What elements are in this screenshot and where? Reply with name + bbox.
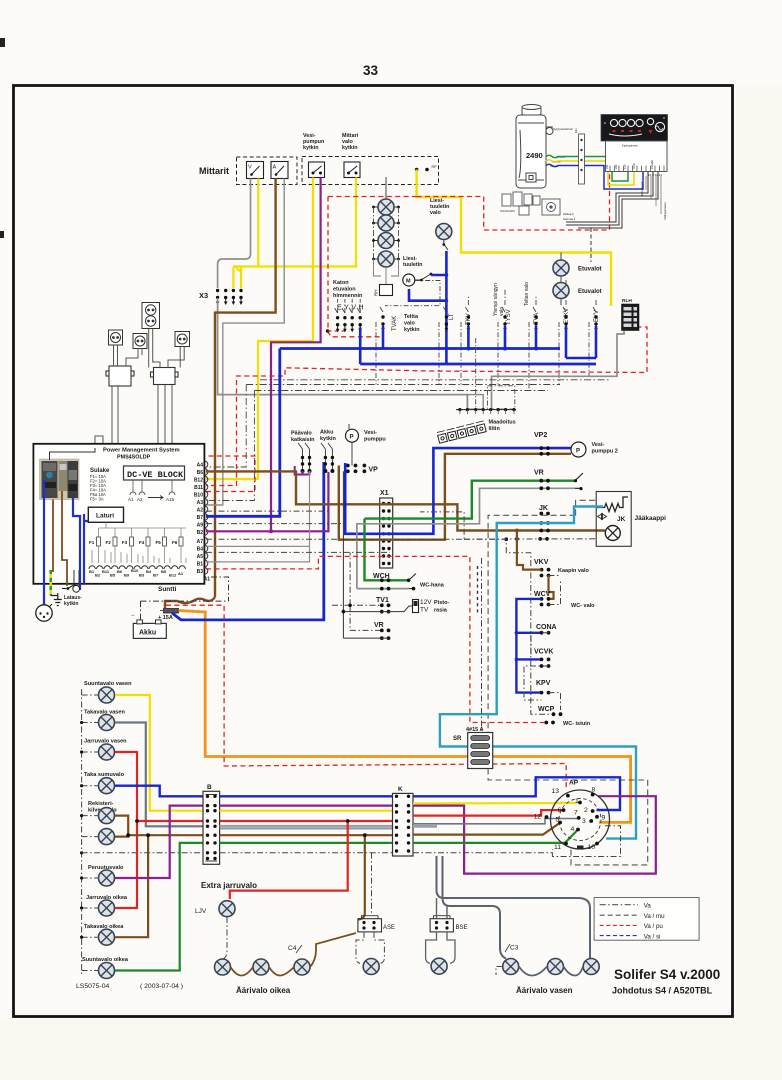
svg-text:TYSV: TYSV <box>506 309 512 325</box>
svg-text:A1: A1 <box>178 571 184 576</box>
wire grey from A meter right down to PMS <box>206 179 284 506</box>
svg-text:VKV: VKV <box>534 559 549 566</box>
svg-text:KPV: KPV <box>536 680 551 687</box>
grey dashed SR to AP loop <box>488 769 648 865</box>
wires fuses to bottom pins <box>92 546 186 563</box>
svg-text:B2: B2 <box>95 573 101 578</box>
grey feeds from K down to BSE and lamp chains <box>437 856 591 959</box>
svg-text:kytkin: kytkin <box>342 145 358 151</box>
svg-text:Teltta: Teltta <box>404 314 419 320</box>
brown to AP pin5 <box>413 823 560 835</box>
svg-text:A: A <box>273 165 277 171</box>
meter box V+A dashed enclosure <box>237 157 298 185</box>
Jaakaappi box <box>596 492 631 547</box>
right edge pin arcs <box>204 461 207 574</box>
black wires TV <box>343 471 413 638</box>
svg-text:Extra jarruvalo: Extra jarruvalo <box>201 881 257 890</box>
svg-text:B5: B5 <box>110 573 116 578</box>
svg-text:F3: F3 <box>122 540 128 545</box>
resistor <box>596 497 628 512</box>
svg-text:Kayttopaneeli: Kayttopaneeli <box>622 144 638 148</box>
lamp column rails <box>374 207 399 259</box>
blue VP to VP2 <box>345 448 571 534</box>
svg-text:B6: B6 <box>117 569 123 574</box>
small black verticals below panel right <box>646 176 661 214</box>
blue chain WCV-CONA-VCVK-KPV <box>516 599 541 693</box>
brown VKV zigzag <box>517 531 542 570</box>
switch S1 vesipumppu <box>309 162 325 178</box>
boiler squiggle wires green yellow blue <box>546 155 628 181</box>
svg-text:pumppu 2: pumppu 2 <box>592 449 618 455</box>
lamp liesituuletin valo <box>436 224 452 240</box>
svg-text:B12: B12 <box>169 573 177 578</box>
svg-text:2: 2 <box>584 807 588 814</box>
breaker photo block <box>40 459 80 500</box>
blue wire liesituuletin circuit <box>445 251 448 349</box>
svg-text:Sytytyselektrodi: Sytytyselektrodi <box>553 127 573 131</box>
red dashed RLH loop to PMS B11 <box>206 327 647 486</box>
svg-text:B12: B12 <box>194 478 203 484</box>
svg-text:A15: A15 <box>166 497 175 502</box>
12V pistorasia <box>413 600 419 613</box>
svg-text:B3: B3 <box>197 569 204 575</box>
BSE lamp loop <box>426 932 455 964</box>
blue to AP pin2 <box>413 777 620 810</box>
red dashed vertical left of lamp column <box>328 197 383 337</box>
svg-text:katkaisin: katkaisin <box>291 437 315 443</box>
svg-text:Äärivalo oikea: Äärivalo oikea <box>236 986 291 995</box>
svg-text:K: K <box>398 786 403 793</box>
svg-text:8: 8 <box>592 787 596 794</box>
svg-text:valo: valo <box>430 210 441 216</box>
dash-dot to fridge <box>464 538 596 540</box>
svg-text:B4: B4 <box>146 569 152 574</box>
dash-dot chain through lamps <box>373 177 399 259</box>
switch S2 mittarivalo <box>344 162 360 178</box>
grey takavalo vasen <box>115 723 203 827</box>
svg-text:JK: JK <box>539 505 548 512</box>
ASE lamp loop <box>356 932 384 964</box>
svg-text:A9: A9 <box>197 523 204 529</box>
green VR wire <box>365 481 576 519</box>
brown rekisterivalo chain <box>115 816 128 837</box>
svg-text:VP: VP <box>369 467 379 474</box>
bottom terminal arcs <box>89 566 185 569</box>
svg-text:Pisto-: Pisto- <box>434 600 449 606</box>
svg-text:B9: B9 <box>161 569 167 574</box>
meter V <box>247 162 264 179</box>
red branch to extra brake light <box>230 821 348 899</box>
svg-text:Mittarit: Mittarit <box>199 166 229 176</box>
red dashed battery to bottom <box>166 605 566 790</box>
svg-text:Va / pu: Va / pu <box>644 923 664 930</box>
svg-text:WC- valo: WC- valo <box>571 603 595 609</box>
red dashed PMS B10 stub <box>206 456 255 492</box>
svg-text:Taka sumuvalo: Taka sumuvalo <box>84 772 125 778</box>
wires lamp column to RH dimmer <box>374 259 399 284</box>
svg-text:Johdotus S4 / A520TBL: Johdotus S4 / A520TBL <box>612 986 713 996</box>
svg-text:TV: TV <box>420 607 429 614</box>
X3 pins <box>216 289 243 305</box>
svg-text:TVAK: TVAK <box>392 316 398 331</box>
svg-text:Akku: Akku <box>139 630 156 637</box>
svg-text:WC- istuin: WC- istuin <box>563 721 591 727</box>
brown branch to ASE <box>358 835 365 919</box>
paavalo switch <box>298 443 310 471</box>
svg-text:Vesi-: Vesi- <box>364 430 377 436</box>
meter A <box>271 162 288 179</box>
svg-text:himmennin: himmennin <box>333 293 363 299</box>
round plug <box>36 605 52 621</box>
svg-text:Jääkaappi: Jääkaappi <box>635 515 667 522</box>
switch below lamp <box>444 240 448 251</box>
grey PMS A5/B1 loop to Paavalo switch <box>206 471 310 562</box>
svg-text:B6: B6 <box>197 470 204 476</box>
Etuvalot lamps <box>553 260 569 276</box>
brown continues to fridge lamp <box>517 529 605 531</box>
svg-text:JK: JK <box>617 516 626 523</box>
dash-dot nets mid <box>206 511 464 630</box>
red jarruvalo chain <box>115 752 137 908</box>
svg-text:Solifer S4 v.2000: Solifer S4 v.2000 <box>614 967 720 982</box>
svg-text:+: + <box>644 134 647 140</box>
svg-text:B3: B3 <box>139 573 145 578</box>
svg-text:LJV: LJV <box>195 908 207 915</box>
svg-text:PMS4SOLDP: PMS4SOLDP <box>117 455 151 461</box>
aarivalo oikea lamps <box>215 959 231 975</box>
teal wire fridge loop <box>440 507 636 839</box>
svg-text:C3: C3 <box>510 945 519 952</box>
svg-text:P: P <box>576 449 580 455</box>
svg-text:Termostaatti: Termostaatti <box>640 181 644 196</box>
yellow to AP pin1 <box>413 802 577 805</box>
svg-text:X1: X1 <box>380 490 389 497</box>
wire yellow S1 left down and to PMS B12 <box>206 178 313 480</box>
svg-text:Valkea 2: Valkea 2 <box>563 212 574 216</box>
svg-text:Maadoitus: Maadoitus <box>489 420 516 426</box>
svg-text:LT: LT <box>449 313 455 320</box>
svg-text:B1: B1 <box>197 562 204 568</box>
svg-text:LS5075-04: LS5075-04 <box>76 983 109 990</box>
red dashed WC-istuin <box>206 556 546 722</box>
purple wires switches <box>295 466 310 475</box>
svg-text:VP2: VP2 <box>534 432 547 439</box>
akku switch <box>321 443 332 471</box>
node dots right of switches <box>415 168 419 172</box>
svg-text:10: 10 <box>588 844 596 851</box>
svg-text:A2: A2 <box>197 508 204 514</box>
ground bus to B <box>82 852 203 854</box>
svg-text:B11: B11 <box>102 569 110 574</box>
ground wire yellow-green <box>50 570 52 596</box>
svg-text:Etuvalot: Etuvalot <box>578 289 602 295</box>
svg-text:A4: A4 <box>197 463 204 469</box>
svg-text:Etuvalot: Etuvalot <box>578 267 602 273</box>
fuse 15A <box>164 609 179 614</box>
svg-text:4: 4 <box>571 826 575 833</box>
svg-text:DC-VE BLOCK: DC-VE BLOCK <box>127 470 184 480</box>
switch right of motor <box>415 275 430 281</box>
WC-hana switch <box>409 574 416 589</box>
svg-text:B9: B9 <box>124 573 130 578</box>
svg-text:A5: A5 <box>197 554 204 560</box>
svg-text:ASE: ASE <box>383 925 395 931</box>
svg-text:Kaapin valo: Kaapin valo <box>558 568 590 574</box>
svg-text:kytkin: kytkin <box>64 601 78 607</box>
svg-text:13: 13 <box>552 788 560 795</box>
svg-text:F2: F2 <box>106 540 112 545</box>
P pump circle <box>346 429 359 442</box>
svg-text:12V: 12V <box>420 599 432 606</box>
svg-text:Sahkopatruuna: Sahkopatruuna <box>663 202 667 220</box>
svg-text:F5: F5 <box>156 540 162 545</box>
dash-dot LJV to aarivalo oikea <box>223 917 228 959</box>
purple peruutusvalo <box>115 806 203 878</box>
brown takavalo oikea <box>115 835 148 937</box>
svg-text:V: V <box>248 165 252 171</box>
wire yellow switchbox right end down to RLH <box>417 170 611 307</box>
svg-text:Va / mu: Va / mu <box>644 913 665 920</box>
socket 1 <box>109 330 123 345</box>
dash-dot shunt line <box>141 600 229 602</box>
svg-text:Akku: Akku <box>320 430 333 436</box>
wire brown from A meter down to shunt <box>215 179 276 598</box>
svg-text:A3: A3 <box>197 500 204 506</box>
svg-text:RLH: RLH <box>622 298 632 304</box>
grey VR wire to WC-hana <box>357 488 575 588</box>
svg-text:Power Management System: Power Management System <box>103 448 180 454</box>
main blue bus 2 <box>360 363 596 366</box>
svg-text:F4: F4 <box>139 540 145 545</box>
svg-text:Rekisteri-: Rekisteri- <box>88 801 114 807</box>
svg-text:12: 12 <box>534 814 542 821</box>
brown PMS B6 to Jaakaappi <box>206 471 517 530</box>
svg-text:Puhallin: Puhallin <box>650 159 654 169</box>
svg-text:CONA: CONA <box>536 624 557 631</box>
svg-text:Katon: Katon <box>333 280 349 286</box>
wire grey from V meter to X3 <box>218 179 251 289</box>
RLH connector black <box>622 304 640 331</box>
blue battery wire <box>172 462 324 620</box>
dash-dot chain right side <box>524 576 561 711</box>
switch box dashed enclosure <box>302 157 439 185</box>
svg-text:P: P <box>350 435 354 441</box>
svg-text:2490: 2490 <box>526 151 543 160</box>
svg-text:Suntti: Suntti <box>158 586 177 593</box>
svg-text:Vesi-: Vesi- <box>592 442 605 448</box>
red dashed from switchbox to boiler area <box>328 172 610 230</box>
svg-text:TVA: TVA <box>534 313 540 324</box>
svg-text:12 0 11 13: 12 0 11 13 <box>648 173 662 177</box>
svg-text:GND: GND <box>632 163 636 169</box>
svg-text:BSE: BSE <box>456 925 468 931</box>
svg-text:F1: F1 <box>89 540 95 545</box>
svg-text:WCV: WCV <box>534 591 551 598</box>
svg-text:B10: B10 <box>131 568 139 573</box>
svg-text:Äärivalo vasen: Äärivalo vasen <box>516 986 573 995</box>
svg-text:EYVH: EYVH <box>337 305 366 312</box>
svg-text:VR: VR <box>534 470 544 477</box>
blue drops from pins to buses <box>360 326 596 364</box>
svg-text:( 2003-07-04 ): ( 2003-07-04 ) <box>140 983 183 990</box>
svg-text:TV1: TV1 <box>376 597 389 604</box>
svg-text:SR: SR <box>453 736 462 742</box>
dash wires into SR <box>481 558 483 733</box>
svg-text:SUOJAJARJ: SUOJAJARJ <box>500 209 516 213</box>
svg-text:AP: AP <box>569 780 579 787</box>
fridge lamp <box>605 526 620 541</box>
black wires from panel pins to igniter <box>566 172 658 228</box>
blue taka sumuvalo <box>115 786 203 797</box>
svg-text:B7: B7 <box>197 515 204 521</box>
svg-text:7: 7 <box>574 810 578 817</box>
svg-text:6: 6 <box>558 807 562 814</box>
svg-text:Harmaa 1: Harmaa 1 <box>563 217 576 221</box>
svg-text:Va / si: Va / si <box>644 933 661 940</box>
orange wire from fuse to bottom <box>179 611 631 823</box>
DC-VE BLOCK <box>124 466 185 480</box>
svg-text:F5= 3A: F5= 3A <box>90 497 104 502</box>
svg-text:A2: A2 <box>137 497 143 502</box>
svg-text:M: M <box>406 279 411 285</box>
svg-text:tuuletin: tuuletin <box>403 262 422 268</box>
grey dashed JK line <box>488 515 575 732</box>
svg-text:Laturi: Laturi <box>96 513 114 520</box>
svg-text:1: 1 <box>575 798 579 805</box>
svg-text:Suuntavalo vasen: Suuntavalo vasen <box>84 681 132 687</box>
red to AP pin6 <box>413 810 562 816</box>
svg-text:WC-hana: WC-hana <box>420 583 445 589</box>
wire yellow bus X3 to switch S2 <box>235 178 356 267</box>
Laturi box <box>88 507 123 522</box>
svg-text:valo: valo <box>404 321 415 327</box>
mains wiring thin lines <box>95 329 184 444</box>
svg-text:9: 9 <box>602 815 606 822</box>
panel connector box <box>606 141 668 172</box>
A1 dash-dot from PMS <box>211 577 229 601</box>
svg-text:Päävalo: Päävalo <box>291 431 312 437</box>
igniter / gas valve unit <box>502 192 560 215</box>
svg-text:11: 11 <box>554 844 561 851</box>
svg-text:A1: A1 <box>204 577 211 583</box>
svg-text:VR: VR <box>374 622 384 629</box>
svg-text:Va: Va <box>644 903 652 910</box>
battery box <box>133 623 166 638</box>
rail dash-dot <box>82 689 98 975</box>
purple loop to AP pin8 <box>413 796 656 873</box>
svg-text:B2: B2 <box>197 530 204 536</box>
charge socket small <box>73 585 80 592</box>
svg-text:B10: B10 <box>194 493 203 499</box>
brown VP to VP2 <box>339 454 571 540</box>
black dashed vertical from bundle <box>590 228 592 262</box>
blue PMS B7 riser to bus <box>206 349 280 517</box>
grey wire RLH down-left to junction boxes <box>492 331 625 410</box>
svg-text:B11: B11 <box>194 485 203 491</box>
svg-text:A7: A7 <box>197 539 204 545</box>
wire grey X3 down to grey bus <box>218 298 468 410</box>
svg-text:WCP: WCP <box>538 706 555 713</box>
relay boxes <box>106 366 178 386</box>
svg-text:−: − <box>131 613 135 619</box>
svg-text:RP: RP <box>432 165 438 169</box>
svg-text:B4: B4 <box>197 547 204 553</box>
RH dimmer box <box>380 285 393 296</box>
fuse row tree <box>99 522 187 528</box>
dash-dot to AP <box>413 826 621 857</box>
ground symbol <box>51 593 62 606</box>
svg-text:kytkin: kytkin <box>303 145 319 151</box>
green down to WCH <box>365 519 409 581</box>
svg-text:5: 5 <box>556 817 560 824</box>
svg-text:liitin: liitin <box>489 426 501 432</box>
wire yellow from V meter right to yellow bus <box>257 179 259 267</box>
motor M <box>403 274 415 286</box>
svg-text:liitin: liitin <box>574 128 578 133</box>
svg-text:pumppu: pumppu <box>364 437 386 443</box>
double socket <box>142 303 160 329</box>
svg-text:B1: B1 <box>89 569 95 574</box>
svg-text:C4: C4 <box>288 945 297 952</box>
svg-text:Teltan valo: Teltan valo <box>524 282 530 306</box>
svg-text:12V: 12V <box>623 164 627 169</box>
svg-text:kytkin: kytkin <box>404 327 420 333</box>
red dashed under EYVH pins <box>328 330 346 332</box>
wire yellow loop at X3 <box>233 266 241 288</box>
svg-text:33: 33 <box>363 63 379 78</box>
small connector strip <box>579 134 585 184</box>
dash-dot below vasen lamp1 <box>496 967 503 976</box>
svg-text:valo: valo <box>499 307 505 316</box>
svg-text:F6: F6 <box>172 540 178 545</box>
pin pairs row <box>381 315 385 331</box>
svg-text:B: B <box>207 784 212 791</box>
grey to AP pin7 <box>413 825 437 828</box>
svg-text:rasia: rasia <box>434 608 448 614</box>
border frame <box>14 86 733 1017</box>
green suuntavalo oikea <box>115 843 203 971</box>
svg-text:B7: B7 <box>153 573 159 578</box>
junction dot red/EYVH <box>326 329 330 333</box>
socket 2 <box>133 334 147 349</box>
svg-text:−: − <box>664 135 667 141</box>
svg-text:RH: RH <box>374 290 379 297</box>
svg-text:230: 230 <box>614 164 618 169</box>
svg-text:kytkin: kytkin <box>320 436 337 442</box>
svg-text:A1: A1 <box>128 497 134 502</box>
socket 3 <box>175 332 190 347</box>
svg-text:VCVK: VCVK <box>534 649 553 656</box>
brown shunt wavy <box>165 597 215 608</box>
svg-text:X3: X3 <box>199 291 208 300</box>
svg-text:V01: V01 <box>605 164 609 169</box>
yellow suuntavalo vasen <box>115 695 203 811</box>
green to AP pin4 <box>413 831 577 843</box>
svg-text:3: 3 <box>582 818 586 825</box>
wire purple S1 right down to Akku kytkin area <box>271 178 321 532</box>
svg-text:etuvalon: etuvalon <box>333 287 356 293</box>
main blue bus 1 <box>280 347 560 350</box>
thermostat contact <box>598 514 607 520</box>
